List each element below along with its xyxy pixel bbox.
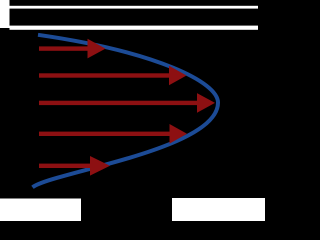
top plate (black, invisible against background) — [10, 5, 259, 26]
white stripe under top plate — [10, 26, 259, 30]
white patch bottom-right — [172, 198, 265, 221]
velocity arrow v4 — [39, 124, 187, 144]
bottom plate (black, invisible against background) — [10, 192, 259, 199]
velocity arrow v3 — [39, 93, 215, 113]
left wall (black, invisible against background) — [0, 28, 10, 192]
background (transparent in source; stored black) — [0, 0, 265, 221]
velocity arrow v1 — [39, 39, 106, 59]
velocity arrow v2 — [39, 66, 187, 86]
white line above top plate — [10, 6, 259, 9]
velocity profile curve (parabola) — [33, 35, 219, 188]
white patch bottom-left — [0, 199, 81, 222]
white margin block top-left — [0, 0, 10, 28]
velocity arrow v5 — [39, 156, 110, 176]
